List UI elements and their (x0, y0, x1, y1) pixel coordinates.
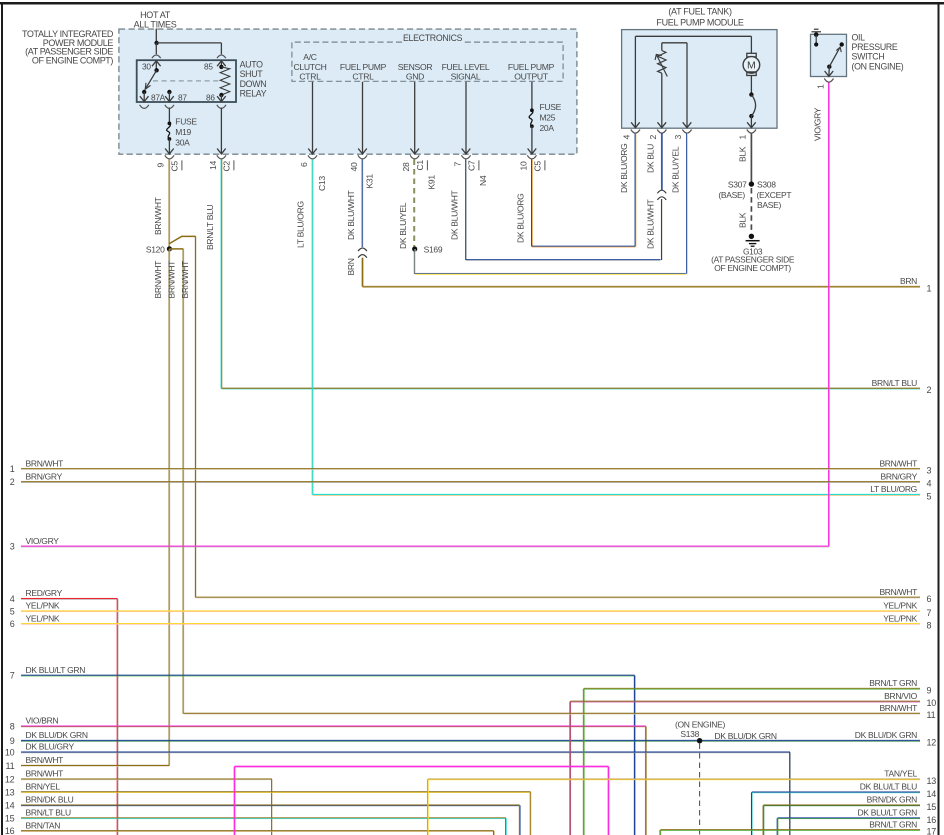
svg-text:12: 12 (927, 737, 937, 747)
svg-text:C5: C5 (170, 161, 180, 172)
wire DK BLU/YEL pin 28 dashed to S169 (414, 159, 415, 248)
fuel pump module internal bus (635, 35, 751, 37)
relay pin 86 terminal arrow (220, 95, 222, 101)
motor supply wire (750, 36, 752, 53)
wire BRN/LT GRN down to bottom (583, 689, 585, 835)
relay contact node 87A (142, 90, 146, 94)
svg-text:YEL/PNK: YEL/PNK (883, 601, 917, 611)
svg-text:3: 3 (673, 135, 683, 140)
svg-text:1: 1 (927, 283, 932, 293)
svg-text:2: 2 (927, 385, 932, 395)
wire relay 87 to fuse M19 (168, 108, 170, 122)
wire DK BLU/WHT pin 40 down (362, 159, 364, 247)
wire a/c clutch ctrl to TIPM edge pin 6 (312, 82, 314, 154)
relay actuator dashed link (153, 80, 220, 82)
svg-text:VIO/GRY: VIO/GRY (26, 536, 60, 546)
svg-text:8: 8 (10, 722, 15, 732)
svg-text:GND: GND (406, 72, 424, 82)
wire BRN/WHT S120 to right #11 (183, 249, 185, 714)
svg-text:8: 8 (927, 621, 932, 631)
wire DK BLU/WHT below connector (661, 199, 663, 260)
svg-text:BASE): BASE) (757, 200, 781, 210)
corner LT BLU/ORG to right #5 (313, 494, 921, 496)
svg-text:87: 87 (178, 93, 187, 103)
svg-text:YEL/PNK: YEL/PNK (883, 613, 917, 623)
svg-text:1: 1 (738, 135, 748, 140)
wire 12 BRN/WHT left (21, 778, 272, 780)
run DK BLU/WHT to fuel pump pin 2 (466, 259, 661, 261)
svg-text:BRN/WHT: BRN/WHT (26, 458, 64, 468)
svg-text:14: 14 (5, 801, 15, 811)
svg-text:(BASE): (BASE) (718, 190, 745, 200)
svg-text:S308: S308 (757, 180, 776, 190)
svg-text:13: 13 (927, 776, 937, 786)
junction node (154, 41, 158, 45)
svg-text:S307: S307 (728, 180, 747, 190)
svg-text:M: M (747, 60, 756, 72)
svg-text:16: 16 (5, 826, 15, 835)
splice S138 (697, 738, 702, 743)
wire BRN/WHT S120 to right #6 (195, 236, 197, 597)
svg-text:M19: M19 (175, 127, 191, 137)
ground G103 (749, 234, 754, 239)
svg-text:9: 9 (10, 736, 15, 746)
svg-text:10: 10 (519, 161, 529, 170)
svg-text:BRN/YEL: BRN/YEL (26, 782, 61, 792)
svg-text:2: 2 (10, 477, 15, 487)
svg-text:CLUTCH: CLUTCH (293, 62, 326, 72)
svg-text:BRN/DK BLU: BRN/DK BLU (26, 795, 74, 805)
wire BRN/LT GRN down to bottom (659, 830, 661, 835)
svg-text:ELECTRONICS: ELECTRONICS (403, 33, 463, 43)
wire BRN/VIO down to bottom (569, 702, 571, 835)
wire DK BLU/LT BLU down to bottom (751, 792, 753, 835)
svg-text:OF ENGINE COMPT): OF ENGINE COMPT) (714, 263, 791, 273)
connector arc pin 86 (217, 105, 226, 109)
svg-text:BRN/GRY: BRN/GRY (26, 471, 63, 481)
oil switch connector arc (824, 79, 833, 83)
svg-text:YEL/PNK: YEL/PNK (26, 601, 60, 611)
TIPM bottom connector arcs (165, 155, 174, 159)
relay pin 87A terminal arrow (143, 92, 145, 101)
feed wire from HOT AT into TIPM (155, 29, 157, 43)
wire fuel pump output to fuse M25 (531, 82, 533, 110)
right run 16 DK BLU/LT GRN (778, 817, 921, 819)
svg-text:DK BLU/WHT: DK BLU/WHT (450, 190, 460, 240)
inline connector on pump feed wire (657, 190, 666, 193)
svg-text:11: 11 (927, 710, 936, 720)
svg-text:13: 13 (5, 787, 15, 797)
svg-text:HOT AT: HOT AT (140, 10, 171, 20)
svg-text:11: 11 (6, 761, 15, 771)
relay pin 87 terminal arrow (168, 92, 170, 101)
svg-text:RELAY: RELAY (240, 89, 267, 99)
svg-text:(EXCEPT: (EXCEPT (757, 190, 792, 200)
svg-text:BRN/WHT: BRN/WHT (26, 769, 64, 779)
svg-text:SHUT: SHUT (240, 69, 264, 79)
wire VIO/BRN down to bottom (645, 726, 647, 835)
svg-text:AUTO: AUTO (240, 60, 264, 70)
svg-text:BRN/WHT: BRN/WHT (167, 261, 177, 299)
wire DK BLU/YEL fuel pump pin 3 (686, 133, 688, 273)
svg-text:BRN/WHT: BRN/WHT (153, 261, 163, 299)
fuel pump module connector arcs (631, 130, 640, 134)
svg-text:9: 9 (927, 685, 932, 695)
svg-text:9: 9 (156, 163, 166, 168)
wire BRN below connector (362, 258, 364, 287)
svg-text:N4: N4 (478, 175, 488, 186)
splice S120 (167, 246, 172, 251)
wire DK BLU/LT GRN down to bottom (634, 676, 636, 835)
corner BRN/LT BLU to right #2 (221, 388, 920, 390)
bridge wire left leg down (234, 767, 236, 835)
right run 17 BRN/LT GRN (660, 829, 920, 831)
fuel pump module box (622, 30, 777, 129)
connector arc pin 87A (140, 105, 149, 109)
svg-text:DK BLU/ORG: DK BLU/ORG (619, 144, 629, 193)
svg-text:A/C: A/C (303, 52, 317, 62)
wire BLK fuel pump pin 1 (750, 133, 752, 184)
svg-text:K91: K91 (427, 175, 437, 190)
wire VIO/GRY oil switch down (828, 83, 830, 547)
fuse M25 20A (530, 108, 534, 112)
svg-text:DOWN: DOWN (240, 79, 267, 89)
svg-text:ALL TIMES: ALL TIMES (134, 19, 177, 29)
svg-text:DK BLU/WHT: DK BLU/WHT (646, 199, 656, 249)
svg-text:BRN/LT BLU: BRN/LT BLU (872, 378, 918, 388)
pin 2 internal wire (661, 73, 663, 127)
svg-text:YEL/PNK: YEL/PNK (26, 613, 60, 623)
svg-text:FUSE: FUSE (175, 117, 197, 127)
svg-text:SENSOR: SENSOR (398, 62, 433, 72)
svg-text:BRN/TAN: BRN/TAN (26, 820, 61, 830)
svg-text:(ON ENGINE): (ON ENGINE) (852, 61, 904, 71)
svg-text:DK BLU: DK BLU (646, 144, 656, 173)
svg-text:C7: C7 (467, 160, 477, 171)
svg-text:RED/GRY: RED/GRY (26, 588, 63, 598)
wire 11 BRN/WHT left (21, 765, 169, 767)
svg-text:40: 40 (349, 162, 359, 171)
svg-text:5: 5 (10, 606, 15, 616)
svg-text:FUEL PUMP: FUEL PUMP (340, 62, 387, 72)
svg-text:BRN/LT GRN: BRN/LT GRN (869, 819, 917, 829)
relay box: auto shut down relay (137, 60, 236, 102)
wire BRN/TAN down to bottom (493, 831, 495, 835)
wire BRN/WHT pin 9 to S120 (169, 159, 171, 249)
svg-text:5: 5 (927, 491, 932, 501)
wire fuse M25 to TIPM edge pin 10 (531, 126, 533, 153)
wire BRN/LT BLU down to bottom (505, 818, 507, 835)
svg-text:DK BLU/LT GRN: DK BLU/LT GRN (26, 665, 86, 675)
wire fuel pump ctrl to TIPM edge pin 40 (362, 82, 364, 154)
bridge wire right leg down (608, 767, 610, 835)
wire DK BLU/GRY down to bottom (789, 752, 791, 835)
svg-text:DK BLU/GRY: DK BLU/GRY (26, 742, 75, 752)
wire BRN/WHT S120 down to left #11 (169, 249, 171, 766)
S120 branch to right #11 (169, 248, 183, 250)
svg-text:FUEL PUMP: FUEL PUMP (508, 62, 555, 72)
svg-text:S138: S138 (680, 729, 699, 739)
motor M1 (747, 53, 756, 57)
svg-text:20A: 20A (540, 123, 555, 133)
svg-text:14: 14 (208, 161, 218, 170)
right run 9 BRN/LT GRN (584, 688, 920, 690)
svg-text:DK BLU/DK GRN: DK BLU/DK GRN (715, 731, 777, 741)
svg-text:6: 6 (10, 619, 15, 629)
right run 6 BRN/WHT (196, 597, 920, 599)
oil pressure switch pin arrow (828, 67, 830, 76)
svg-text:BRN/WHT: BRN/WHT (26, 755, 64, 765)
svg-text:BLK: BLK (738, 146, 748, 162)
TIPM module box (light blue, dashed) (119, 29, 577, 154)
S120 diagonal branch (169, 236, 195, 243)
relay contact node 87 (167, 90, 171, 94)
wire sensor gnd to TIPM edge pin 28 (414, 82, 416, 154)
svg-text:14: 14 (927, 789, 937, 799)
wire 9 DK BLU/DK GRN full width (21, 740, 920, 742)
svg-text:DK BLU/LT BLU: DK BLU/LT BLU (860, 782, 917, 792)
svg-text:CTRL: CTRL (352, 72, 374, 82)
wire 13 BRN/YEL (21, 791, 531, 793)
pin 1 internal wire (750, 116, 752, 127)
wire 5 YEL/PNK (21, 610, 920, 612)
right run 13 TAN/YEL (428, 778, 920, 780)
svg-text:BRN/VIO: BRN/VIO (884, 691, 918, 701)
svg-text:FUEL LEVEL: FUEL LEVEL (442, 62, 490, 72)
right run 14 DK BLU/LT BLU (752, 791, 920, 793)
pin 4 internal wire (634, 36, 636, 127)
svg-text:DK BLU/ORG: DK BLU/ORG (516, 194, 526, 243)
svg-text:BRN/WHT: BRN/WHT (180, 261, 190, 299)
svg-text:TAN/YEL: TAN/YEL (884, 769, 917, 779)
wire 3 VIO/GRY (21, 546, 829, 548)
wire 14 BRN/DK BLU (21, 804, 520, 806)
svg-text:16: 16 (927, 815, 937, 825)
wire 2 BRN/GRY full width (21, 481, 920, 483)
run DK BLU/ORG to fuel pump pin 4 (532, 246, 636, 248)
svg-text:DK BLU/YEL: DK BLU/YEL (398, 202, 408, 249)
wire 1 BRN/WHT full width (21, 468, 920, 470)
connector arc pin 85 (217, 55, 226, 58)
wire BRN/WHT down to bottom (271, 779, 273, 835)
wire BRN/YEL down to bottom (530, 792, 532, 835)
wire relay 86 to TIPM edge pin 14 (220, 108, 222, 154)
svg-text:1: 1 (10, 464, 15, 474)
svg-text:DK BLU/DK GRN: DK BLU/DK GRN (855, 730, 917, 740)
svg-text:7: 7 (10, 671, 15, 681)
svg-text:LT BLU/ORG: LT BLU/ORG (296, 201, 306, 248)
svg-text:SWITCH: SWITCH (852, 52, 885, 62)
svg-text:LT BLU/ORG: LT BLU/ORG (870, 484, 917, 494)
wire BRN/DK GRN down to bottom (763, 805, 765, 835)
svg-text:6: 6 (927, 594, 932, 604)
relay pin 30 terminal arrow (152, 61, 161, 66)
svg-text:BRN/WHT: BRN/WHT (879, 458, 917, 468)
svg-text:30: 30 (142, 62, 151, 72)
svg-text:FUEL PUMP MODULE: FUEL PUMP MODULE (656, 18, 744, 28)
svg-text:C1: C1 (415, 160, 425, 171)
right run 11 BRN/WHT (183, 713, 920, 715)
svg-text:2: 2 (648, 135, 658, 140)
wire 10 DK BLU/GRY (21, 751, 790, 753)
svg-text:86: 86 (206, 93, 215, 103)
wire junction to relay pin 85 (157, 42, 222, 44)
svg-text:BRN/WHT: BRN/WHT (879, 587, 917, 597)
wire 8 VIO/BRN (21, 725, 646, 727)
wire 7 DK BLU/LT GRN (21, 675, 635, 677)
wire DK BLU/LT GRN down to bottom (777, 818, 779, 835)
inline connector on fuel pump ctrl wire (358, 248, 367, 251)
wire LT BLU/ORG pin 6 down (312, 159, 314, 494)
svg-text:OF ENGINE COMPT): OF ENGINE COMPT) (32, 55, 114, 65)
wire fuse M19 to TIPM edge pin 9 (168, 139, 170, 154)
right run 10 BRN/VIO (570, 701, 920, 703)
svg-text:30A: 30A (175, 138, 190, 148)
svg-text:FUSE: FUSE (540, 102, 562, 112)
svg-text:C5: C5 (533, 161, 543, 172)
wire BLK dashed to ground (750, 188, 752, 232)
wire TAN/YEL down to bottom (427, 779, 429, 835)
magenta bridge wire (235, 766, 609, 768)
svg-text:BRN/WHT: BRN/WHT (153, 197, 163, 235)
svg-text:BRN/LT BLU: BRN/LT BLU (205, 204, 215, 250)
wire DK BLU/YEL below S169 (414, 249, 416, 274)
svg-text:PRESSURE: PRESSURE (852, 42, 898, 52)
wire 6 YEL/PNK (21, 623, 920, 625)
svg-text:1: 1 (816, 84, 826, 89)
wire fuel level signal to TIPM edge pin 7 (465, 82, 467, 154)
relay coil node 86 (219, 93, 223, 97)
svg-text:S169: S169 (424, 245, 443, 255)
svg-text:87A: 87A (151, 93, 166, 103)
level sender bracket (662, 42, 687, 44)
svg-text:BLK: BLK (738, 212, 748, 228)
svg-text:(AT FUEL TANK): (AT FUEL TANK) (668, 7, 732, 17)
svg-text:BRN: BRN (900, 276, 917, 286)
svg-text:7: 7 (927, 608, 932, 618)
run DK BLU/YEL to fuel pump pin 3 (415, 273, 686, 275)
svg-text:C2: C2 (222, 161, 232, 172)
svg-text:C13: C13 (317, 176, 327, 191)
svg-text:DK BLU/LT GRN: DK BLU/LT GRN (857, 808, 917, 818)
wire 16 BRN/TAN (21, 830, 494, 832)
relay contact node 30 (154, 68, 158, 72)
wire BRN/DK BLU down to bottom (519, 805, 521, 835)
svg-text:BRN/DK GRN: BRN/DK GRN (867, 795, 918, 805)
splice S307 S308 (749, 181, 754, 186)
svg-text:3: 3 (10, 542, 15, 552)
svg-text:BRN: BRN (346, 258, 356, 275)
svg-text:VIO/BRN: VIO/BRN (26, 716, 59, 726)
svg-text:4: 4 (622, 135, 632, 140)
svg-text:OIL: OIL (852, 32, 866, 42)
svg-text:BRN/LT BLU: BRN/LT BLU (26, 808, 72, 818)
svg-text:4: 4 (10, 594, 15, 604)
wire DK BLU/WHT pin 7 down (465, 159, 467, 260)
fuel level sender resistor (658, 51, 666, 74)
svg-text:DK BLU/YEL: DK BLU/YEL (671, 146, 681, 193)
connector arc pin 87 (165, 105, 174, 109)
wire 4 RED/GRY (21, 598, 118, 600)
svg-text:BRN/GRY: BRN/GRY (881, 471, 918, 481)
wire DK BLU/ORG fuel pump pin 4 (635, 133, 637, 246)
wire RED/GRY down to bottom (117, 599, 119, 835)
oil pressure switch case ground symbol (812, 31, 822, 33)
wire DK BLU fuel pump pin 2 (661, 133, 663, 190)
S138 dashed drop to bottom (699, 744, 701, 835)
connector arc pin 30 (152, 55, 161, 58)
svg-text:OUTPUT: OUTPUT (514, 72, 549, 82)
svg-text:CTRL: CTRL (299, 72, 321, 82)
svg-text:4: 4 (927, 479, 932, 489)
svg-text:6: 6 (299, 162, 309, 167)
wire DK BLU/ORG pin 10 down (531, 159, 533, 246)
relay coil pin 85 (220, 61, 222, 67)
svg-text:10: 10 (5, 748, 15, 758)
svg-text:17: 17 (927, 827, 937, 835)
svg-text:85: 85 (204, 62, 213, 72)
svg-text:SIGNAL: SIGNAL (451, 72, 481, 82)
svg-text:DK BLU/DK GRN: DK BLU/DK GRN (26, 730, 88, 740)
svg-text:DK BLU/WHT: DK BLU/WHT (346, 190, 356, 240)
ELECTRONICS dashed box (292, 42, 563, 81)
svg-text:BRN/LT GRN: BRN/LT GRN (869, 678, 917, 688)
wire BRN/LT BLU pin 14 down (221, 159, 223, 388)
oil pressure switch contacts (827, 65, 831, 69)
fuse M19 30A (168, 122, 172, 126)
relay movable contact arm 30-87A (145, 70, 156, 89)
svg-text:BRN/WHT: BRN/WHT (879, 703, 917, 713)
svg-text:28: 28 (401, 162, 411, 171)
svg-text:3: 3 (927, 466, 932, 476)
svg-text:K31: K31 (365, 174, 375, 189)
svg-text:12: 12 (5, 775, 15, 785)
svg-text:10: 10 (927, 698, 937, 708)
wire motor to inertia switch (750, 76, 752, 95)
corner BRN to right #1 (363, 286, 921, 288)
splice S169 (412, 246, 417, 251)
svg-text:VIO/GRY: VIO/GRY (813, 107, 823, 141)
svg-text:(ON ENGINE): (ON ENGINE) (675, 720, 726, 730)
pin 3 internal arrow (683, 122, 692, 127)
oil pressure switch box (811, 34, 847, 76)
svg-text:15: 15 (5, 813, 15, 823)
wire 15 BRN/LT BLU (21, 817, 506, 819)
svg-text:S120: S120 (146, 244, 165, 254)
svg-text:M25: M25 (540, 113, 556, 123)
wire junction down to relay pin 30 (155, 43, 157, 54)
right run 15 BRN/DK GRN (763, 804, 920, 806)
svg-text:7: 7 (453, 162, 463, 167)
svg-text:15: 15 (927, 802, 937, 812)
inertia switch contacts (749, 92, 753, 96)
